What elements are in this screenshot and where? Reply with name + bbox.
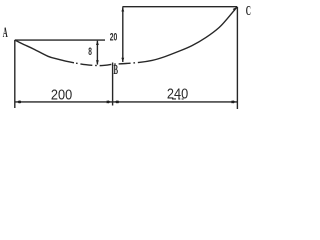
svg-text:8: 8	[88, 45, 92, 57]
node: arrow at curve end near C	[233, 7, 237, 11]
node: arrow right at end of 200 dimension	[107, 101, 113, 104]
node: small dashes under 240 label	[172, 98, 176, 99]
wire: curve rising to C (solid)	[140, 7, 237, 63]
wire: horizontal reference line at C level	[122, 6, 237, 8]
svg-text:20: 20	[110, 31, 118, 43]
node: arrow left at start of 200 dimension	[15, 101, 21, 104]
wire: extension line below C	[236, 7, 238, 109]
node: arrow down at bottom of 20 dimension	[121, 58, 124, 63]
wire: dimension line 20 vertical	[122, 7, 124, 62]
wire: curve A to lowest region (solid)	[15, 40, 74, 63]
svg-text:C: C	[246, 4, 251, 19]
wire: horizontal reference line at A level	[15, 39, 105, 41]
wire: extension line below B	[112, 63, 114, 106]
node: arrow down at bottom of 8 dimension	[96, 60, 99, 65]
wire: curve bottom dash-dot section through B	[74, 62, 140, 65]
wire: dimension line 8 vertical	[96, 41, 98, 65]
wire: extension line below A	[14, 40, 16, 108]
svg-text:200: 200	[51, 87, 73, 103]
svg-text:A: A	[3, 26, 8, 41]
svg-text:B: B	[114, 63, 118, 78]
node: arrow right at end of 240 dimension	[231, 101, 237, 104]
node: arrow up at top of 8 dimension	[96, 41, 99, 46]
svg-text:240: 240	[167, 86, 189, 102]
wire: bottom dimension line	[15, 101, 237, 103]
node: arrow up at top of 20 dimension	[121, 7, 124, 12]
node: arrow left at start of 240 dimension	[113, 101, 119, 104]
